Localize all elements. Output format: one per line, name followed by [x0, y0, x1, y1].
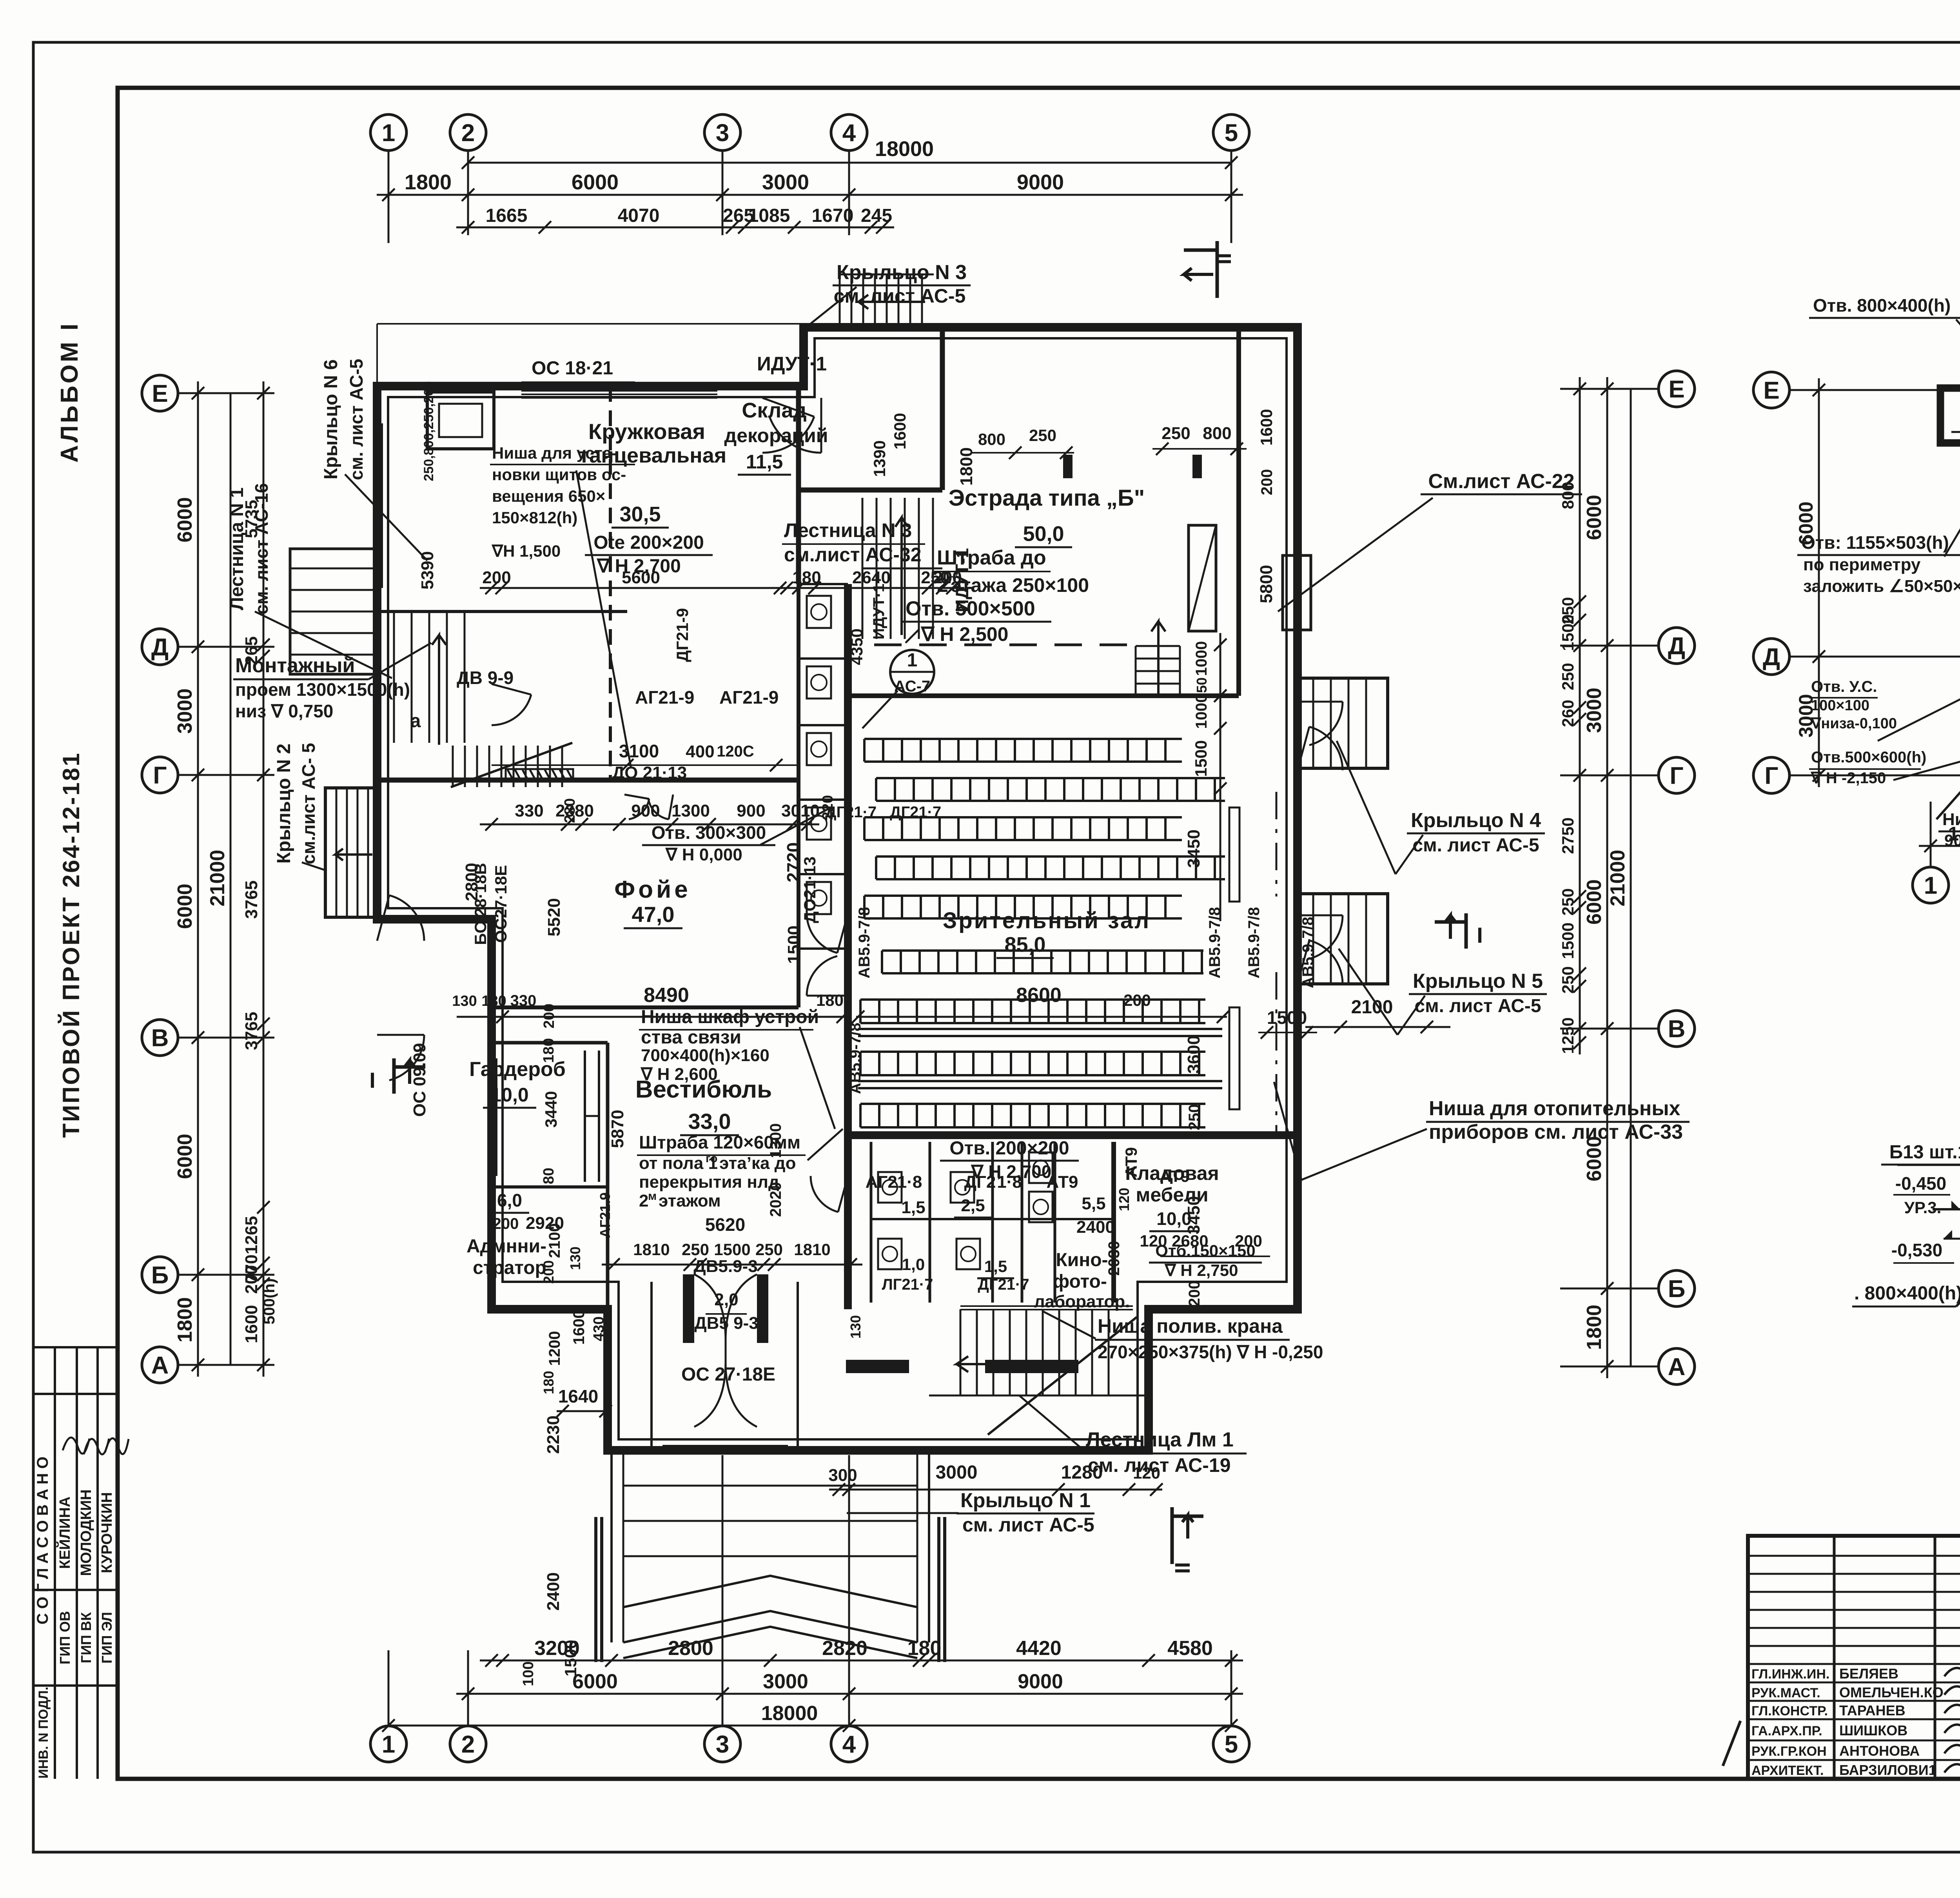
svg-text:1000: 1000	[1193, 641, 1210, 676]
svg-text:ОС 18·21: ОС 18·21	[532, 358, 613, 379]
svg-text:800: 800	[1203, 424, 1231, 443]
svg-text:-0,530: -0,530	[1891, 1240, 1942, 1260]
svg-text:50: 50	[1194, 677, 1210, 693]
svg-text:5,5: 5,5	[1082, 1194, 1105, 1213]
svg-text:1: 1	[907, 650, 918, 671]
svg-text:АВ5.9-7/8: АВ5.9-7/8	[847, 1023, 864, 1094]
svg-text:4: 4	[842, 120, 856, 147]
svg-text:3765: 3765	[242, 1012, 261, 1050]
svg-text:лаборатор.: лаборатор.	[1034, 1292, 1130, 1311]
svg-text:1265: 1265	[242, 1216, 261, 1254]
svg-text:АНТОНОВА: АНТОНОВА	[1839, 1743, 1920, 1759]
svg-text:200: 200	[1235, 1232, 1262, 1250]
svg-text:3200: 3200	[534, 1637, 580, 1660]
svg-text:Отв. 300×300: Отв. 300×300	[652, 822, 766, 843]
svg-text:5520: 5520	[544, 898, 564, 936]
svg-text:3450: 3450	[1184, 1196, 1203, 1234]
svg-text:100: 100	[520, 1661, 537, 1686]
svg-text:ТАРАНЕВ: ТАРАНЕВ	[1839, 1702, 1906, 1718]
svg-text:АГ21-9: АГ21-9	[635, 687, 694, 708]
svg-text:заложить ∠50×50×5: заложить ∠50×50×5	[1803, 577, 1960, 596]
svg-text:РУК.МАСТ.: РУК.МАСТ.	[1751, 1686, 1820, 1700]
svg-text:2: 2	[461, 1731, 475, 1758]
svg-text:1500: 1500	[714, 1240, 750, 1259]
svg-text:1670: 1670	[812, 205, 854, 226]
svg-text:200: 200	[541, 1260, 557, 1284]
svg-text:430: 430	[591, 1316, 607, 1341]
svg-text:Лестница N 3: Лестница N 3	[784, 519, 912, 541]
svg-text:Фойе: Фойе	[614, 876, 691, 903]
svg-text:2800: 2800	[668, 1637, 713, 1660]
svg-text:180: 180	[792, 568, 821, 587]
svg-text:Крыльцо N 4: Крыльцо N 4	[1411, 809, 1541, 832]
svg-text:Б: Б	[1668, 1276, 1686, 1303]
svg-text:Кружковая: Кружковая	[588, 419, 705, 444]
svg-text:фото-: фото-	[1053, 1271, 1107, 1292]
svg-text:2750: 2750	[1559, 817, 1577, 854]
svg-text:5600: 5600	[622, 568, 660, 587]
svg-text:270×250×375(h) ∇ Н -0,250: 270×250×375(h) ∇ Н -0,250	[1098, 1342, 1323, 1362]
svg-text:1800: 1800	[405, 171, 452, 194]
svg-text:Д: Д	[1763, 644, 1780, 671]
svg-text:низ ∇ 0,750: низ ∇ 0,750	[235, 701, 333, 721]
svg-text:2400: 2400	[1076, 1218, 1115, 1237]
svg-text:6000: 6000	[174, 884, 196, 929]
svg-text:Крыльцо N 5: Крыльцо N 5	[1413, 970, 1543, 993]
svg-text:800: 800	[978, 430, 1005, 448]
svg-text:250: 250	[1559, 966, 1577, 994]
svg-text:БЕЛЯЕВ: БЕЛЯЕВ	[1839, 1666, 1898, 1682]
svg-text:9000: 9000	[1018, 1670, 1063, 1693]
svg-text:С О Г Л А С О В А Н О: С О Г Л А С О В А Н О	[34, 1457, 51, 1625]
svg-text:Лестница Лм 1: Лестница Лм 1	[1086, 1428, 1234, 1451]
svg-text:1,5: 1,5	[901, 1198, 925, 1217]
svg-text:4350: 4350	[848, 628, 866, 665]
svg-text:200: 200	[1123, 991, 1151, 1009]
svg-text:В: В	[151, 1025, 169, 1052]
svg-text:1600: 1600	[242, 1305, 261, 1343]
svg-text:1800: 1800	[174, 1297, 196, 1343]
svg-text:этаʼка до: этаʼка до	[719, 1154, 796, 1173]
svg-text:1600: 1600	[1257, 409, 1276, 445]
svg-text:а: а	[410, 711, 421, 731]
svg-text:1800: 1800	[1948, 823, 1960, 845]
svg-text:11,5: 11,5	[746, 451, 783, 473]
svg-text:АВ5.9-7/8: АВ5.9-7/8	[1245, 907, 1263, 978]
svg-text:250: 250	[1559, 888, 1577, 916]
svg-text:перекрытия нлд: перекрытия нлд	[639, 1172, 779, 1192]
svg-text:I: I	[1477, 923, 1483, 947]
svg-text:5800: 5800	[1257, 565, 1276, 603]
svg-text:1500: 1500	[1559, 922, 1577, 959]
svg-text:декораций: декораций	[724, 425, 828, 446]
svg-text:см.лист АС- 5: см.лист АС- 5	[298, 743, 319, 864]
svg-text:Е: Е	[1763, 377, 1779, 404]
svg-text:33,0: 33,0	[688, 1109, 731, 1134]
svg-text:5: 5	[1225, 120, 1238, 147]
svg-text:АТ9: АТ9	[1122, 1147, 1140, 1177]
svg-text:см. лист АС-5: см. лист АС-5	[1412, 835, 1539, 856]
svg-text:ОС27·18Е: ОС27·18Е	[492, 865, 510, 943]
svg-text:∇ Н 0,000: ∇ Н 0,000	[665, 845, 742, 864]
svg-text:245: 245	[861, 205, 892, 226]
svg-text:100×100: 100×100	[1811, 697, 1869, 714]
svg-text:3100: 3100	[619, 741, 659, 761]
svg-text:200: 200	[242, 1265, 261, 1294]
svg-text:1·8: 1·8	[997, 1172, 1022, 1192]
svg-text:стратор: стратор	[473, 1257, 546, 1278]
svg-text:АЛЬБОМ I: АЛЬБОМ I	[56, 321, 83, 463]
svg-text:1640: 1640	[558, 1386, 598, 1406]
svg-text:ГЛ.КОНСТР.: ГЛ.КОНСТР.	[1751, 1704, 1828, 1718]
svg-text:-0,450: -0,450	[1895, 1173, 1946, 1194]
svg-text:2020: 2020	[767, 1182, 784, 1217]
svg-text:1,0: 1,0	[902, 1255, 925, 1274]
svg-text:Зрительный зал: Зрительный зал	[943, 908, 1151, 933]
svg-text:6000: 6000	[174, 497, 196, 543]
svg-text:3000: 3000	[762, 171, 809, 194]
svg-text:КЕЙЛИНА: КЕЙЛИНА	[56, 1497, 73, 1569]
svg-text:Крыльцо N 3: Крыльцо N 3	[837, 261, 967, 284]
svg-text:1,5: 1,5	[984, 1257, 1007, 1276]
svg-text:см. лист АС-16: см. лист АС-16	[251, 483, 272, 614]
svg-text:1810: 1810	[633, 1240, 670, 1259]
svg-text:Отв. У.С.: Отв. У.С.	[1811, 678, 1877, 695]
svg-text:БАРЗИЛОВИ1: БАРЗИЛОВИ1	[1839, 1762, 1936, 1778]
svg-text:6000: 6000	[572, 171, 619, 194]
svg-text:6000: 6000	[1583, 495, 1606, 540]
svg-text:3440: 3440	[542, 1091, 560, 1127]
svg-text:1500: 1500	[1559, 614, 1577, 651]
svg-text:200: 200	[482, 568, 511, 587]
svg-text:Д: Д	[1668, 633, 1685, 660]
svg-text:2,0: 2,0	[714, 1290, 738, 1309]
svg-text:2230: 2230	[544, 1415, 563, 1454]
svg-text:См.лист АС-22: См.лист АС-22	[1428, 470, 1574, 493]
svg-text:приборов см. лист АС-33: приборов см. лист АС-33	[1429, 1121, 1683, 1143]
svg-text:5390: 5390	[418, 551, 437, 590]
svg-text:3000: 3000	[174, 688, 196, 734]
svg-text:1665: 1665	[486, 205, 528, 226]
svg-text:3765: 3765	[242, 880, 261, 919]
svg-text:50,0: 50,0	[1023, 522, 1064, 546]
svg-text:5: 5	[1225, 1731, 1238, 1758]
svg-text:6000: 6000	[572, 1670, 618, 1693]
svg-text:1: 1	[382, 1731, 395, 1758]
svg-text:ГЛ.ИНЖ.ИН.: ГЛ.ИНЖ.ИН.	[1751, 1667, 1829, 1682]
svg-text:. 800×400(h): . 800×400(h)	[1854, 1283, 1960, 1304]
svg-text:II: II	[1212, 253, 1236, 265]
svg-text:1300: 1300	[671, 801, 710, 820]
svg-text:8600: 8600	[1016, 984, 1062, 1007]
svg-text:Д: Д	[151, 634, 169, 661]
svg-text:700×400(h)×160: 700×400(h)×160	[641, 1046, 769, 1065]
svg-text:КУРОЧКИН: КУРОЧКИН	[99, 1492, 115, 1573]
svg-text:см. лист АС-5: см. лист АС-5	[962, 1514, 1094, 1536]
svg-text:Лестница N 1: Лестница N 1	[227, 487, 247, 610]
svg-text:150×812(h): 150×812(h)	[492, 508, 577, 527]
svg-text:Монтажный: Монтажный	[235, 654, 355, 677]
svg-text:ГИП ВК: ГИП ВК	[78, 1612, 94, 1663]
svg-text:5620: 5620	[705, 1214, 745, 1235]
svg-text:ДВ5.9-3: ДВ5.9-3	[693, 1257, 757, 1276]
svg-text:2100: 2100	[1351, 997, 1393, 1018]
svg-text:Отв.500×600(h): Отв.500×600(h)	[1811, 749, 1926, 766]
svg-text:см. лист АС-5: см. лист АС-5	[346, 359, 367, 480]
svg-text:ИНВ. N ПОДЛ.: ИНВ. N ПОДЛ.	[36, 1687, 51, 1778]
svg-text:Кино-: Кино-	[1056, 1250, 1108, 1270]
svg-text:200: 200	[1258, 469, 1276, 495]
svg-text:АРХИТЕКТ.: АРХИТЕКТ.	[1751, 1763, 1824, 1778]
svg-text:Отв. 500×500: Отв. 500×500	[906, 597, 1035, 620]
svg-text:130: 130	[452, 993, 477, 1009]
svg-text:ДГ21-9: ДГ21-9	[673, 608, 691, 662]
svg-text:1500: 1500	[1192, 740, 1210, 777]
svg-text:этажом: этажом	[659, 1191, 721, 1210]
svg-text:9000: 9000	[1017, 171, 1064, 194]
svg-text:250: 250	[1029, 426, 1056, 445]
svg-text:ства связи: ства связи	[641, 1027, 741, 1048]
svg-text:ДГ21·7: ДГ21·7	[978, 1276, 1029, 1293]
svg-text:200: 200	[541, 1003, 557, 1028]
svg-text:3: 3	[716, 120, 729, 147]
svg-text:Адмнни-: Адмнни-	[466, 1236, 546, 1257]
svg-text:280: 280	[562, 798, 578, 823]
svg-text:2720: 2720	[783, 842, 804, 882]
svg-text:Оte 200×200: Оte 200×200	[593, 532, 704, 553]
svg-text:Г: Г	[1764, 762, 1778, 789]
svg-text:Крыльцо N 1: Крыльцо N 1	[960, 1489, 1091, 1512]
svg-text:3000: 3000	[763, 1670, 808, 1693]
svg-text:2400: 2400	[544, 1572, 563, 1611]
svg-text:200: 200	[933, 568, 962, 587]
svg-text:Б: Б	[151, 1262, 169, 1289]
svg-text:1500: 1500	[784, 925, 804, 964]
svg-text:8490: 8490	[644, 984, 689, 1007]
svg-text:2820: 2820	[822, 1637, 867, 1660]
svg-text:Штраба до: Штраба до	[937, 546, 1046, 569]
svg-text:1: 1	[382, 120, 395, 147]
svg-text:180: 180	[541, 1038, 557, 1063]
svg-text:∇ Н 2,500: ∇ Н 2,500	[920, 623, 1008, 645]
svg-text:200: 200	[1186, 1281, 1203, 1307]
svg-text:4: 4	[842, 1731, 856, 1758]
svg-text:ИДУТ·1: ИДУТ·1	[757, 353, 827, 375]
svg-text:21000: 21000	[206, 850, 229, 907]
svg-text:30,5: 30,5	[619, 503, 661, 526]
svg-text:500(h): 500(h)	[261, 1278, 278, 1325]
svg-text:5870: 5870	[608, 1110, 627, 1148]
svg-text:этажа 250×100: этажа 250×100	[951, 574, 1089, 596]
svg-text:АГ21.9: АГ21.9	[597, 1192, 613, 1238]
svg-text:130: 130	[848, 1315, 864, 1339]
svg-text:130: 130	[567, 1247, 583, 1270]
svg-text:1: 1	[1924, 872, 1937, 899]
svg-text:Отв. 800×400(h): Отв. 800×400(h)	[1813, 295, 1951, 316]
svg-text:900: 900	[737, 801, 765, 820]
svg-text:6,0: 6,0	[497, 1190, 522, 1210]
svg-text:∇ Н 2,750: ∇ Н 2,750	[1164, 1261, 1238, 1279]
svg-text:м: м	[648, 1190, 657, 1203]
svg-text:А: А	[1668, 1354, 1686, 1381]
svg-text:4070: 4070	[618, 205, 660, 226]
svg-text:АТ9: АТ9	[1047, 1172, 1078, 1192]
svg-text:ШИШКОВ: ШИШКОВ	[1839, 1722, 1907, 1738]
svg-text:∇низа-0,100: ∇низа-0,100	[1811, 715, 1897, 732]
svg-text:ЛГ21·7: ЛГ21·7	[882, 1276, 933, 1293]
svg-text:10,0: 10,0	[490, 1084, 528, 1106]
svg-text:ТИПОВОЙ ПРОЕКТ 264-12-181: ТИПОВОЙ ПРОЕКТ 264-12-181	[58, 751, 84, 1138]
svg-text:ДГ2: ДГ2	[964, 1172, 996, 1192]
svg-text:АВ5.9-7/8: АВ5.9-7/8	[856, 907, 873, 978]
svg-text:1300: 1300	[767, 1123, 784, 1158]
svg-text:ОС 09.09: ОС 09.09	[410, 1043, 429, 1117]
svg-text:Е: Е	[152, 380, 168, 407]
svg-text:250: 250	[755, 1240, 783, 1259]
svg-text:180: 180	[907, 1637, 942, 1660]
svg-text:2800: 2800	[462, 863, 481, 901]
svg-text:1085: 1085	[748, 205, 790, 226]
svg-text:18000: 18000	[761, 1702, 818, 1725]
svg-text:4580: 4580	[1167, 1637, 1213, 1660]
svg-text:1390: 1390	[870, 440, 889, 477]
svg-text:∇Н 1,500: ∇Н 1,500	[491, 542, 561, 560]
svg-text:85,0: 85,0	[1004, 933, 1045, 956]
svg-text:250: 250	[1161, 424, 1190, 443]
svg-text:1600: 1600	[891, 413, 909, 449]
svg-text:250: 250	[682, 1240, 709, 1259]
svg-text:Крыльцо N 2: Крыльцо N 2	[274, 744, 294, 864]
svg-text:АС-7: АС-7	[894, 678, 930, 695]
svg-text:Склад: Склад	[742, 399, 806, 422]
svg-text:ДВ5 9-3: ДВ5 9-3	[694, 1314, 758, 1333]
svg-text:АГ21·8: АГ21·8	[866, 1172, 922, 1192]
svg-text:ОС 27·18Е: ОС 27·18Е	[681, 1364, 775, 1385]
svg-text:3450: 3450	[1184, 829, 1203, 868]
svg-text:го: го	[706, 1152, 717, 1165]
svg-text:ДВ 9-9: ДВ 9-9	[457, 668, 514, 688]
svg-text:180: 180	[541, 1371, 557, 1394]
svg-text:по периметру: по периметру	[1803, 555, 1921, 574]
svg-text:330: 330	[515, 801, 543, 820]
svg-text:200: 200	[493, 1215, 519, 1232]
svg-text:ДО 21·13: ДО 21·13	[612, 763, 687, 782]
svg-text:180: 180	[816, 991, 844, 1009]
svg-text:47,0: 47,0	[632, 902, 675, 927]
svg-text:3: 3	[716, 1731, 729, 1758]
svg-text:см. лист АС-19: см. лист АС-19	[1088, 1454, 1231, 1476]
svg-text:250: 250	[1559, 663, 1577, 690]
svg-text:400: 400	[686, 742, 714, 761]
svg-text:АВ5.9-7/8: АВ5.9-7/8	[1299, 917, 1317, 988]
svg-text:180: 180	[481, 993, 506, 1009]
svg-text:Е: Е	[1668, 376, 1684, 403]
svg-text:ГИП ОВ: ГИП ОВ	[57, 1611, 73, 1664]
svg-text:330: 330	[510, 992, 537, 1009]
svg-text:Крыльцо N 6: Крыльцо N 6	[321, 359, 341, 479]
svg-text:∇ Н -2,150: ∇ Н -2,150	[1810, 769, 1886, 787]
svg-text:3000: 3000	[1583, 688, 1606, 733]
svg-text:А: А	[151, 1352, 169, 1379]
svg-text:∇ Н 2,600: ∇ Н 2,600	[640, 1065, 718, 1084]
svg-text:1600: 1600	[570, 1310, 588, 1345]
svg-text:см. лист АС-5: см. лист АС-5	[1414, 996, 1541, 1016]
svg-text:Б13 шт.1: Б13 шт.1	[1889, 1142, 1960, 1163]
svg-text:18000: 18000	[875, 137, 934, 161]
svg-text:ИДУТ·1: ИДУТ·1	[870, 584, 887, 640]
svg-text:I: I	[369, 1068, 376, 1092]
svg-text:260: 260	[1559, 700, 1577, 727]
svg-text:Г: Г	[1670, 762, 1683, 789]
svg-text:Г: Г	[153, 762, 167, 789]
svg-text:Отв. 200×200: Отв. 200×200	[949, 1138, 1069, 1159]
svg-text:2,5: 2,5	[961, 1196, 985, 1215]
svg-text:1810: 1810	[794, 1240, 830, 1259]
svg-text:300: 300	[828, 1466, 857, 1485]
svg-text:120: 120	[1116, 1188, 1132, 1211]
svg-text:250,800,250,260: 250,800,250,260	[421, 381, 436, 481]
svg-text:ГА.АРХ.ПР.: ГА.АРХ.ПР.	[1751, 1724, 1822, 1738]
svg-text:см.лист АС-32: см.лист АС-32	[784, 544, 922, 566]
svg-text:II: II	[1171, 1562, 1194, 1574]
svg-text:80: 80	[541, 1168, 557, 1184]
svg-text:новки щитов ос-: новки щитов ос-	[492, 465, 626, 484]
svg-text:АВ5.9-7/8: АВ5.9-7/8	[1206, 907, 1223, 978]
svg-text:ГИП ЭЛ: ГИП ЭЛ	[99, 1612, 115, 1664]
svg-text:6000: 6000	[174, 1134, 196, 1179]
svg-text:220: 220	[820, 795, 836, 820]
svg-text:900: 900	[631, 801, 660, 820]
svg-text:Ниша для отопительных: Ниша для отопительных	[1429, 1097, 1681, 1120]
svg-text:АТ9: АТ9	[1160, 1167, 1190, 1185]
svg-text:1800: 1800	[1583, 1305, 1606, 1350]
svg-text:3000: 3000	[936, 1462, 978, 1483]
svg-text:вещения 650×: вещения 650×	[492, 487, 605, 505]
svg-text:АГ21-9: АГ21-9	[719, 687, 779, 708]
svg-text:3600: 3600	[1184, 1035, 1203, 1074]
svg-text:МОЛОДКИН: МОЛОДКИН	[78, 1489, 94, 1576]
svg-text:В: В	[1668, 1016, 1686, 1043]
svg-text:2: 2	[639, 1191, 648, 1210]
svg-text:1250: 1250	[1559, 1017, 1577, 1054]
svg-text:Отв: 1155×503(h): Отв: 1155×503(h)	[1801, 532, 1949, 553]
svg-text:проем 1300×1500(h): проем 1300×1500(h)	[235, 679, 410, 700]
svg-text:2: 2	[461, 120, 475, 147]
svg-text:250: 250	[1186, 1104, 1203, 1130]
svg-text:4420: 4420	[1016, 1637, 1062, 1660]
svg-text:2100: 2100	[546, 1223, 563, 1258]
svg-text:УР.3.: УР.3.	[1904, 1198, 1942, 1217]
svg-text:1200: 1200	[546, 1331, 563, 1366]
svg-text:ДГ21·7: ДГ21·7	[890, 804, 941, 821]
svg-text:Эстрада типа „Б": Эстрада типа „Б"	[949, 485, 1145, 511]
svg-text:1000: 1000	[1193, 694, 1210, 729]
svg-text:2030: 2030	[1105, 1241, 1123, 1276]
svg-text:Ниша полив. крана: Ниша полив. крана	[1098, 1315, 1283, 1337]
svg-text:1500: 1500	[1267, 1007, 1307, 1028]
svg-text:21000: 21000	[1606, 850, 1629, 907]
svg-text:Ниша для уста-: Ниша для уста-	[492, 444, 617, 462]
svg-text:ОМЕЛЬЧЕН.КО: ОМЕЛЬЧЕН.КО	[1839, 1684, 1944, 1700]
svg-text:120С: 120С	[717, 743, 754, 760]
svg-text:РУК.ГР.КОН: РУК.ГР.КОН	[1751, 1744, 1827, 1759]
